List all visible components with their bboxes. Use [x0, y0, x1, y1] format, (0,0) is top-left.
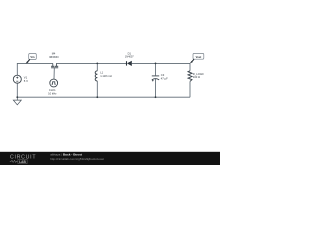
svg-text:1.118 mH: 1.118 mH [100, 74, 112, 78]
wire L1 leads [96, 63, 98, 97]
label CLK1 10kHz [48, 88, 57, 95]
wire M4 gate lead [53, 68, 55, 79]
node L1 bottom [96, 96, 98, 98]
wire R_LOAD bottom lead [189, 81, 191, 97]
svg-text:L1: L1 [100, 70, 103, 74]
label V1 5V [24, 76, 28, 83]
diode D1 [127, 61, 132, 66]
wire top rail left (V1 to M4) [17, 63, 53, 75]
svg-text:100 Ω: 100 Ω [193, 75, 200, 79]
wire top rail right (D1 to R_LOAD corner) [132, 63, 190, 70]
svg-text:LAB: LAB [19, 160, 26, 164]
voltage source V1 [13, 75, 21, 83]
node junction V1-gnd [16, 96, 18, 98]
svg-text:47 µF: 47 µF [161, 77, 168, 81]
resistor R_LOAD [188, 71, 192, 82]
label D1 1N4007 [125, 52, 134, 59]
transistor M4 (PMOS switch) [51, 63, 58, 67]
wire V1 bottom lead [16, 83, 18, 97]
wire top rail mid (M4 to D1) [56, 62, 126, 64]
svg-text:Vout: Vout [196, 55, 202, 59]
inductor L1 [95, 71, 97, 81]
svg-text:Vin: Vin [30, 55, 34, 59]
ground [13, 97, 21, 105]
clock source CLK1 [50, 79, 58, 87]
svg-text:1N4007: 1N4007 [125, 56, 134, 59]
CircuitLab logo LAB [18, 160, 27, 164]
label L1 1.118mH [100, 70, 112, 78]
svg-text:10 kHz: 10 kHz [48, 92, 57, 96]
node C3 top [155, 63, 157, 65]
svg-text:IRF9630: IRF9630 [49, 56, 59, 59]
svg-text:http://circuitlab.com/c/g53zw9: http://circuitlab.com/c/g53zw9j/buck-boo… [50, 157, 104, 161]
node L1 top [96, 63, 98, 65]
node flag Vout [190, 53, 204, 63]
svg-text:5 V: 5 V [24, 79, 28, 83]
CircuitLab logo resistor zigzag [10, 160, 18, 162]
svg-text:abhaya | Buck - Boost: abhaya | Buck - Boost [50, 153, 82, 157]
svg-text:CLK1: CLK1 [49, 88, 56, 92]
label R_LOAD 100ohm [193, 72, 204, 79]
label C3 47uF [161, 73, 168, 80]
node C3 bottom [155, 96, 157, 98]
wire bottom rail [17, 96, 190, 98]
footer bar [0, 152, 220, 165]
svg-text:R_LOAD: R_LOAD [193, 72, 204, 76]
svg-text:C3: C3 [161, 73, 165, 77]
capacitor C3 [152, 76, 159, 82]
node flag Vin [26, 54, 37, 64]
wire C3 leads [155, 63, 157, 97]
label M4 IRF9630 [49, 52, 59, 59]
